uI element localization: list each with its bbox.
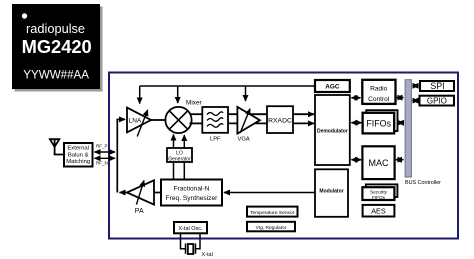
antenna xyxy=(50,139,65,154)
wire: Demodulator to Radio Control (double arrow) xyxy=(352,97,361,99)
svg-text:GPIO: GPIO xyxy=(427,96,447,105)
wire: MAC to BUS bar (double arrow) xyxy=(396,159,403,161)
svg-text:RXADC: RXADC xyxy=(268,117,292,124)
wire: LPF to RXADC (I) xyxy=(228,113,267,115)
svg-text:RF_P: RF_P xyxy=(96,143,108,148)
svg-text:AGC: AGC xyxy=(325,84,340,91)
block: Radio Control xyxy=(362,80,395,104)
wire: mixer to LPF (Q) xyxy=(190,122,203,124)
svg-text:Control: Control xyxy=(368,96,390,103)
svg-text:PA: PA xyxy=(135,208,144,215)
BUS Controller bar xyxy=(405,80,441,186)
wire: junction to LNA input xyxy=(117,118,125,120)
wire: synthesizer to LO Generator (line 1) xyxy=(173,162,175,180)
block: SPI xyxy=(420,81,454,91)
mixer xyxy=(165,99,202,133)
svg-text:Fractional-N: Fractional-N xyxy=(174,186,210,193)
svg-text:FIFOs: FIFOs xyxy=(366,119,391,129)
svg-text:Temperature Sensor: Temperature Sensor xyxy=(250,210,295,216)
svg-text:AES: AES xyxy=(371,206,386,215)
svg-text:Balun &: Balun & xyxy=(68,152,89,158)
wire: Demodulator to MAC (double arrow) xyxy=(352,159,362,161)
svg-text:Matching: Matching xyxy=(66,159,90,165)
wire: LNA to mixer xyxy=(151,119,166,121)
svg-text:Demodulator: Demodulator xyxy=(317,128,348,134)
block: External Balun & Matching xyxy=(64,143,93,167)
wire: RXADC to Demodulator (I) xyxy=(293,113,314,115)
block: AES xyxy=(363,205,395,217)
wire: LO Generator to mixer (arrow 2) xyxy=(183,135,185,148)
wire: Modulator to synthesizer xyxy=(224,192,315,194)
wire: antenna junction vertical xyxy=(116,119,118,193)
amplifier LNA xyxy=(127,108,151,137)
svg-text:MAC: MAC xyxy=(369,158,390,168)
block: LO Generator xyxy=(167,148,192,162)
svg-text:Generator: Generator xyxy=(168,156,191,162)
wire: Demodulator to FIFOs (double arrow) xyxy=(352,122,362,124)
block: Modulator xyxy=(315,169,348,217)
svg-text:RF_N: RF_N xyxy=(96,161,108,166)
svg-text:LPF: LPF xyxy=(210,136,221,142)
amplifier PA xyxy=(127,180,154,215)
svg-text:radiopulse: radiopulse xyxy=(26,21,85,36)
block: GPIO xyxy=(420,96,455,106)
crystal X-tal xyxy=(181,233,201,254)
chip package photo MG2420 xyxy=(12,4,103,92)
block: Vtg. Regulator xyxy=(247,222,295,232)
wire: RF_N differential line (double arrow) xyxy=(95,157,116,159)
block: LPF xyxy=(202,107,228,142)
svg-text:LNA: LNA xyxy=(129,118,142,125)
wire: BUS bar to SPI (double arrow) xyxy=(413,85,419,87)
wire: RF_P differential line (double arrow) xyxy=(95,151,116,153)
wire: AGC drop to Mixer xyxy=(177,86,179,103)
wire: synthesizer to PA xyxy=(154,192,161,194)
svg-text:SPI: SPI xyxy=(430,81,444,91)
svg-text:FIFOs: FIFOs xyxy=(372,195,386,200)
block: MAC xyxy=(362,146,394,179)
svg-text:External: External xyxy=(67,145,89,151)
svg-text:VGA: VGA xyxy=(237,136,249,142)
block: Fractional-N Freq. Synthesizer xyxy=(161,180,222,206)
wire: LPF to RXADC (Q) xyxy=(228,122,267,124)
svg-text:YYWW##AA: YYWW##AA xyxy=(23,69,89,82)
wire: AGC feedback line xyxy=(140,85,315,87)
block: AGC xyxy=(315,80,350,92)
block: Security FIFOs (stacked) xyxy=(362,184,397,200)
wire: AGC drop to VGA xyxy=(245,86,247,101)
svg-text:Radio: Radio xyxy=(370,86,388,93)
svg-text:X-tal: X-tal xyxy=(202,252,213,258)
svg-text:BUS Controller: BUS Controller xyxy=(405,180,441,186)
block: RXADC xyxy=(267,106,293,133)
wire: synthesizer to LO Generator (line 2) xyxy=(183,162,185,180)
wire: Radio Control to BUS bar (double arrow) xyxy=(397,97,404,99)
wire: BUS bar to GPIO (double arrow) xyxy=(413,100,419,102)
wire: mixer to LPF (I) xyxy=(190,113,203,115)
block: Demodulator xyxy=(315,95,350,165)
svg-text:Vtg. Regulator: Vtg. Regulator xyxy=(256,225,287,231)
wire: RXADC to Demodulator (Q) xyxy=(293,122,314,124)
chip boundary rectangle xyxy=(109,73,458,239)
block: Temperature Sensor xyxy=(247,207,298,217)
svg-text:X-tal Osc.: X-tal Osc. xyxy=(178,226,203,232)
svg-text:Mixer: Mixer xyxy=(186,99,202,106)
wire: AGC drop to LNA xyxy=(139,86,141,104)
svg-text:MG2420: MG2420 xyxy=(22,36,92,57)
wire: LO Generator to mixer (arrow 1) xyxy=(173,135,175,149)
wire: FIFOs to BUS bar (double arrow) xyxy=(398,122,403,124)
svg-text:Modulator: Modulator xyxy=(319,188,343,194)
block: FIFOs (stacked) xyxy=(363,110,398,133)
amplifier VGA xyxy=(237,107,260,142)
block: X-tal Osc. xyxy=(174,222,207,233)
wire: PA output to junction xyxy=(120,192,127,194)
svg-text:Freq. Synthesizer: Freq. Synthesizer xyxy=(166,195,218,202)
